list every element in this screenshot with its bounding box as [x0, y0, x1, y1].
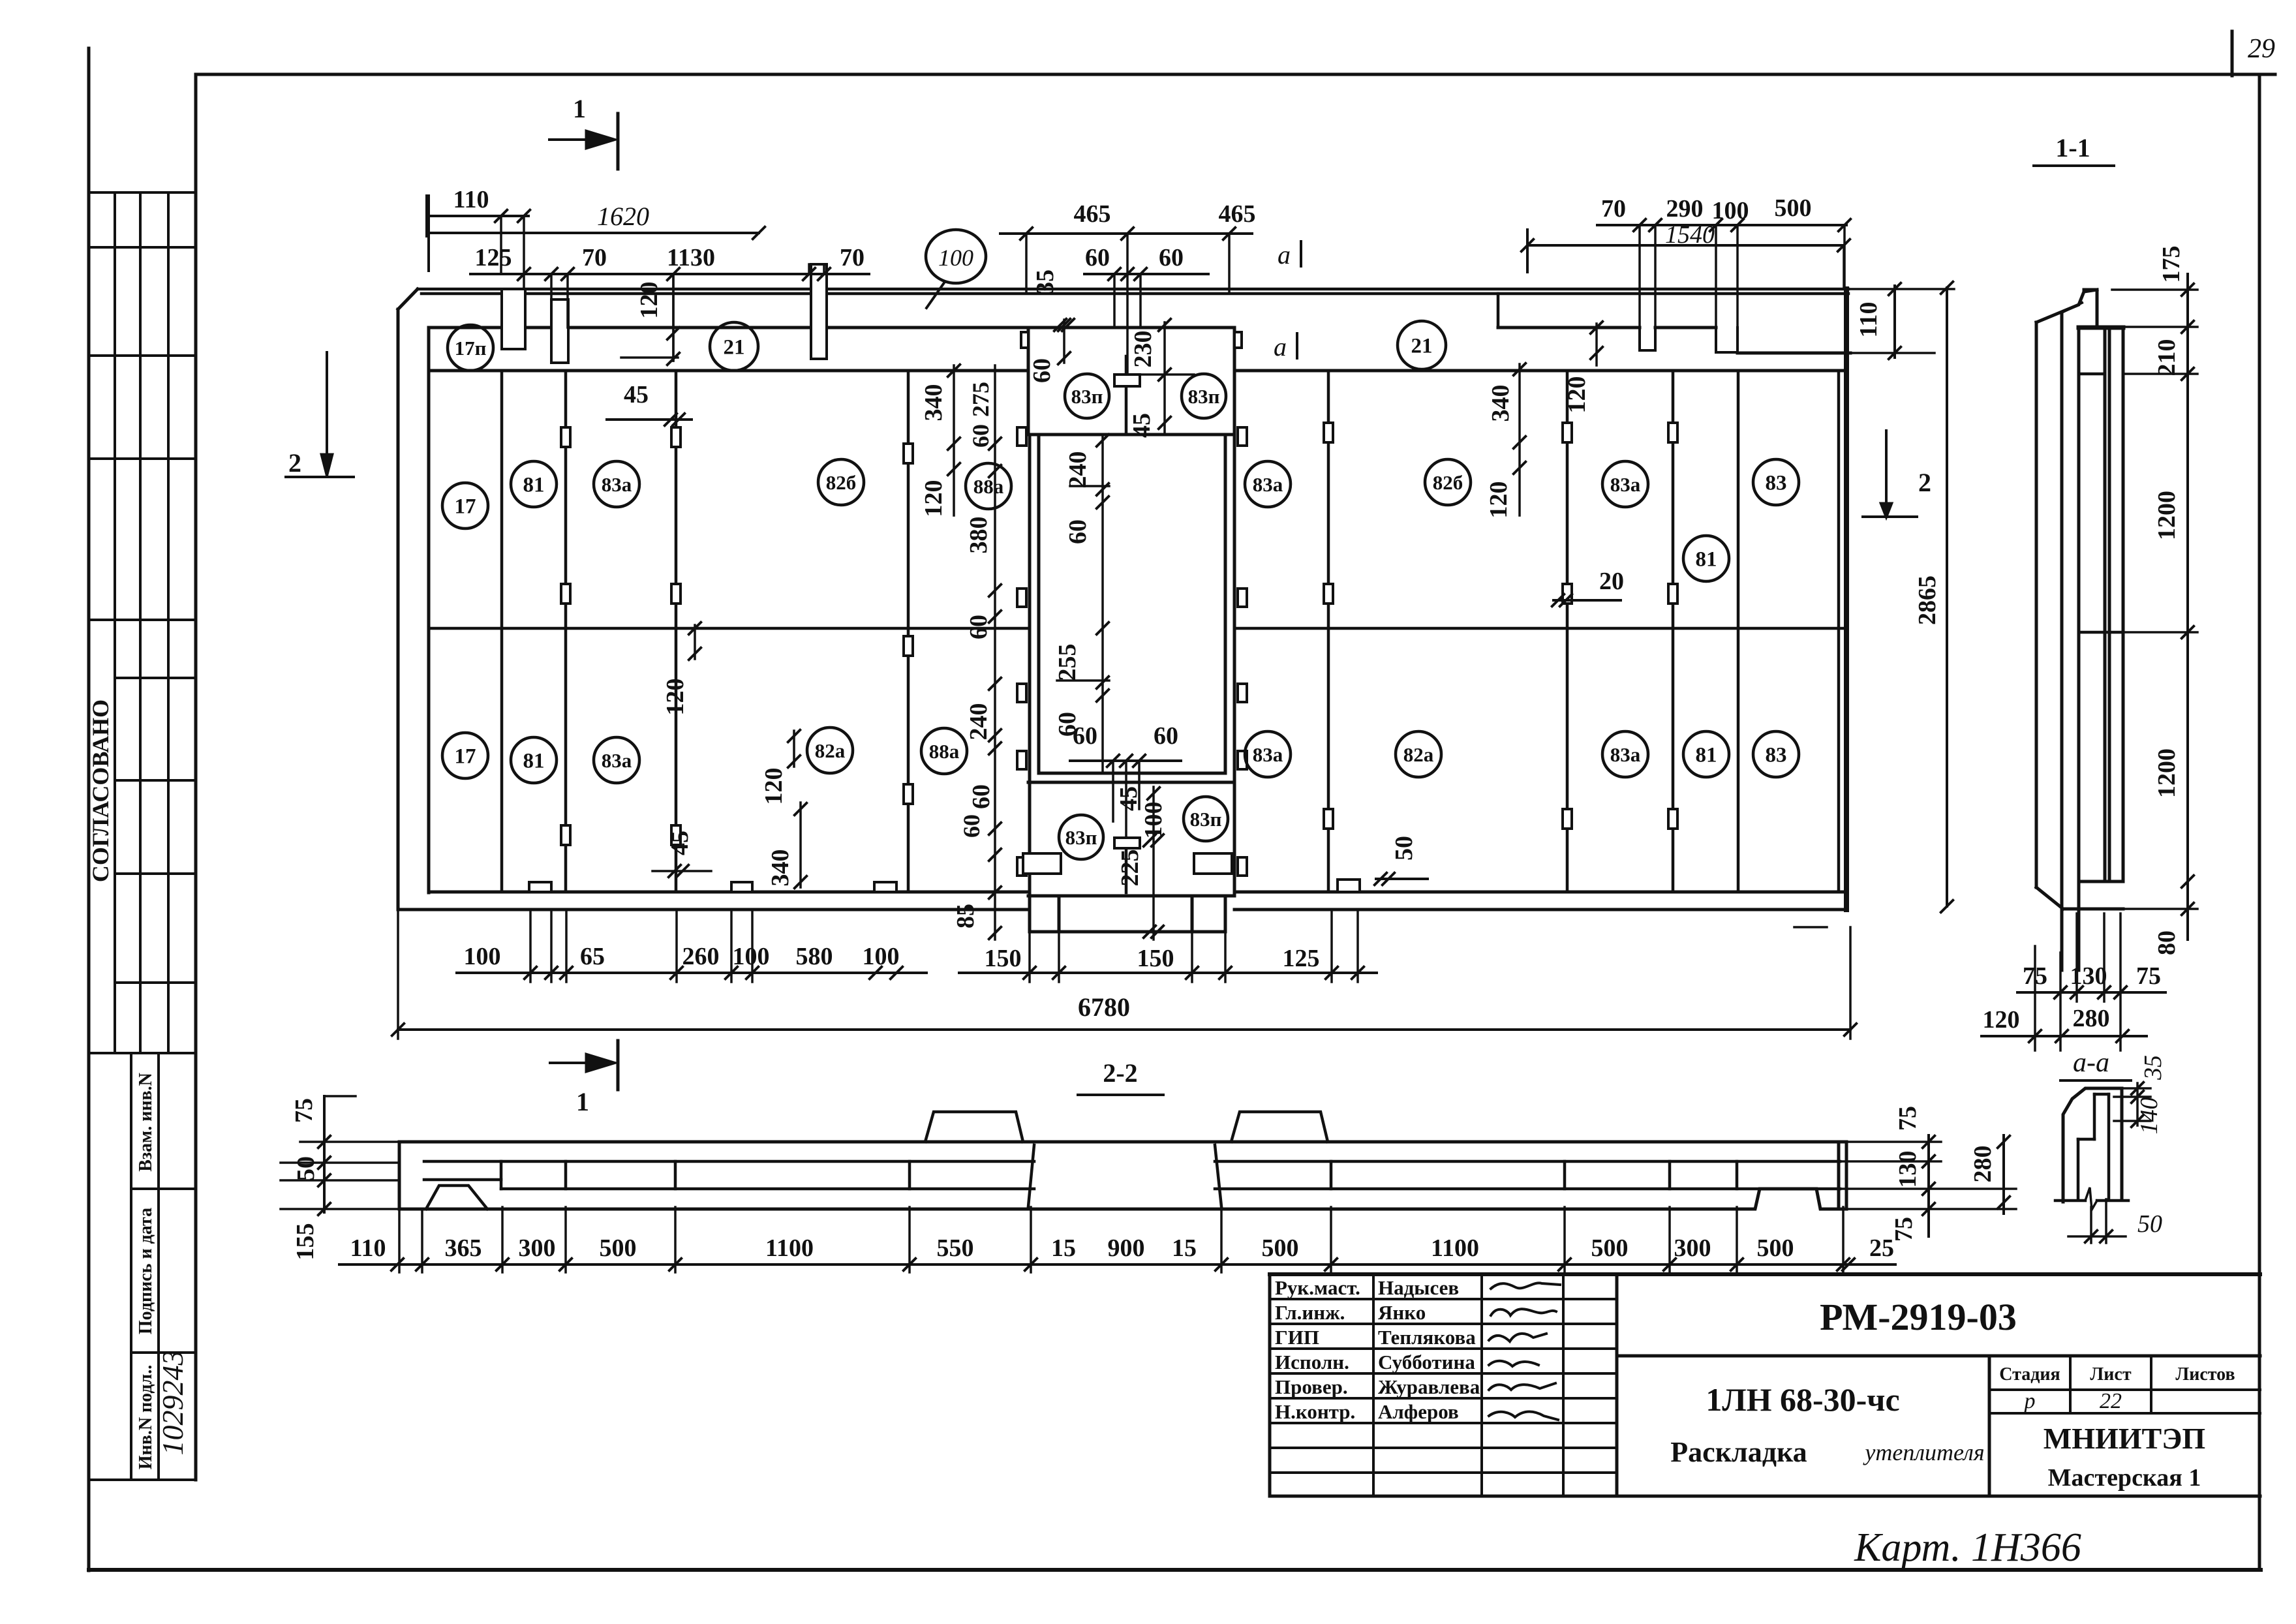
dim 110 right of plan — [1848, 288, 1954, 290]
svg-text:60: 60 — [1159, 244, 1184, 271]
svg-text:2: 2 — [288, 448, 301, 478]
dim 6780 — [397, 910, 399, 1039]
svg-text:21: 21 — [724, 336, 745, 360]
svg-text:17п: 17п — [455, 337, 487, 360]
svg-text:а: а — [1278, 240, 1291, 269]
svg-text:45: 45 — [666, 831, 694, 855]
svg-text:155: 155 — [292, 1223, 319, 1261]
svg-text:45: 45 — [624, 381, 649, 408]
svg-text:500: 500 — [1757, 1234, 1794, 1262]
circle 81 rb — [1683, 731, 1729, 777]
svg-text:83а: 83а — [1610, 473, 1641, 496]
circle 88a top — [966, 463, 1011, 509]
svg-text:65: 65 — [580, 943, 605, 970]
svg-text:60: 60 — [1154, 722, 1178, 750]
svg-text:300: 300 — [519, 1234, 556, 1262]
svg-text:Листов: Листов — [2175, 1364, 2235, 1385]
entrance porch below shaft — [1028, 896, 1032, 932]
svg-text:22: 22 — [2100, 1389, 2122, 1413]
left hat profile — [426, 1186, 487, 1209]
middle divider — [429, 627, 1030, 630]
dim 1620 handwritten — [429, 232, 759, 234]
svg-text:465: 465 — [1219, 200, 1256, 228]
svg-text:50: 50 — [292, 1156, 320, 1181]
svg-text:Алферов: Алферов — [1378, 1400, 1459, 1423]
svg-text:120: 120 — [920, 480, 947, 517]
svg-text:85: 85 — [952, 904, 979, 928]
svg-text:365: 365 — [445, 1234, 482, 1262]
svg-text:82б: 82б — [1433, 471, 1463, 494]
svg-text:1100: 1100 — [1431, 1234, 1479, 1262]
dim 2865 — [1946, 288, 1948, 906]
svg-text:СОГЛАСОВАНО: СОГЛАСОВАНО — [87, 699, 114, 882]
lintel plate top — [1125, 356, 1128, 435]
svg-text:Надысев: Надысев — [1378, 1276, 1459, 1299]
svg-text:81: 81 — [1696, 744, 1717, 767]
svg-text:2865: 2865 — [1914, 575, 1941, 625]
svg-text:580: 580 — [796, 943, 833, 970]
shaft walls — [1028, 435, 1032, 896]
svg-text:150: 150 — [985, 945, 1022, 972]
svg-text:Взам. инв.N: Взам. инв.N — [136, 1073, 156, 1172]
svg-text:340: 340 — [920, 384, 947, 421]
dim 110 top — [427, 215, 528, 217]
svg-text:Гл.инж.: Гл.инж. — [1275, 1301, 1345, 1324]
svg-text:225: 225 — [1116, 850, 1144, 887]
svg-text:Исполн.: Исполн. — [1275, 1351, 1349, 1373]
svg-text:а: а — [1274, 332, 1287, 361]
svg-text:Мастерская 1: Мастерская 1 — [2048, 1464, 2201, 1492]
lintel plate bottom — [1125, 848, 1128, 893]
svg-text:Стадия: Стадия — [1999, 1364, 2060, 1385]
svg-text:2: 2 — [1918, 468, 1931, 497]
svg-text:ГИП: ГИП — [1275, 1326, 1319, 1349]
svg-text:75: 75 — [1890, 1217, 1918, 1242]
svg-text:81: 81 — [523, 474, 545, 497]
room partitions — [500, 371, 504, 892]
svg-text:280: 280 — [2073, 1005, 2110, 1032]
plan outer boundary — [397, 309, 400, 910]
svg-text:Н.контр.: Н.контр. — [1275, 1400, 1355, 1423]
svg-text:125: 125 — [1283, 945, 1320, 972]
svg-text:88а: 88а — [929, 740, 960, 763]
dim 465 465 — [1000, 232, 1252, 235]
svg-text:15: 15 — [1172, 1234, 1197, 1262]
svg-text:1: 1 — [576, 1087, 589, 1116]
svg-text:Теплякова: Теплякова — [1378, 1326, 1476, 1349]
svg-text:р: р — [2023, 1389, 2036, 1413]
svg-text:75: 75 — [2136, 962, 2161, 990]
circle 81 rmid — [1683, 536, 1729, 581]
svg-text:1130: 1130 — [667, 244, 715, 271]
svg-text:130: 130 — [1894, 1151, 1921, 1188]
signatures squiggles — [1491, 1283, 1560, 1289]
svg-text:20: 20 — [1599, 568, 1624, 595]
svg-text:110: 110 — [1855, 302, 1882, 338]
svg-text:1029243: 1029243 — [156, 1351, 189, 1456]
svg-text:83а: 83а — [602, 749, 632, 772]
circle 17 top — [442, 483, 488, 529]
svg-text:50: 50 — [2137, 1210, 2162, 1238]
section 2-2 slab — [399, 1141, 1846, 1144]
section mark 2 right — [1885, 431, 1888, 504]
svg-text:а-а: а-а — [2073, 1048, 2109, 1078]
svg-text:Субботина: Субботина — [1378, 1351, 1475, 1373]
svg-text:120: 120 — [1485, 482, 1512, 519]
svg-text:70: 70 — [582, 244, 607, 271]
circle 83p bottom left — [1059, 815, 1103, 859]
svg-text:83а: 83а — [1253, 473, 1283, 496]
svg-text:17: 17 — [455, 745, 476, 769]
circle 83p bottom right — [1184, 797, 1228, 841]
svg-text:75: 75 — [1894, 1106, 1921, 1131]
section 1-1 panel profile — [2035, 322, 2038, 887]
top channels right — [1638, 328, 1641, 350]
dim 1540 handwritten — [1527, 244, 1844, 247]
svg-text:290: 290 — [1666, 195, 1704, 222]
svg-text:80: 80 — [2153, 930, 2181, 955]
svg-text:РМ-2919-03: РМ-2919-03 — [1820, 1296, 2017, 1338]
dim 60 60 top — [1084, 273, 1208, 275]
svg-text:500: 500 — [1591, 1234, 1629, 1262]
svg-text:2-2: 2-2 — [1103, 1058, 1137, 1088]
a-a dims — [2136, 1083, 2139, 1126]
dim ext lines top-left — [500, 216, 502, 274]
section mark 1 top — [549, 138, 587, 141]
svg-text:100: 100 — [1712, 197, 1749, 224]
dim row 70 290 100 500 — [1597, 224, 1846, 226]
svg-text:Инв.N подл..: Инв.N подл.. — [136, 1365, 156, 1469]
section 1-1 dims — [2112, 288, 2197, 291]
svg-text:100: 100 — [733, 943, 770, 970]
bottom wall inner edge and teeth — [429, 891, 1028, 894]
svg-text:МНИИТЭП: МНИИТЭП — [2043, 1422, 2205, 1455]
section 1-1 right block — [2079, 326, 2123, 330]
slab bottom with porch notch — [399, 1189, 1846, 1209]
svg-text:83: 83 — [1766, 744, 1787, 767]
section 2-2 bottom dim row — [300, 1141, 399, 1143]
dim 280 right — [2002, 1135, 2005, 1214]
svg-text:275: 275 — [968, 382, 994, 417]
svg-text:125: 125 — [475, 244, 512, 271]
svg-text:140: 140 — [2135, 1097, 2163, 1135]
svg-text:21: 21 — [1411, 335, 1433, 358]
svg-text:45: 45 — [1115, 786, 1142, 811]
svg-text:83а: 83а — [602, 473, 632, 496]
svg-text:60: 60 — [958, 814, 985, 838]
slab joints — [500, 1161, 503, 1189]
circle 100 callout — [926, 230, 986, 283]
svg-text:1200: 1200 — [2153, 491, 2181, 540]
svg-text:Журавлева: Журавлева — [1378, 1375, 1480, 1398]
roof teeth crossing top edge — [502, 289, 525, 349]
top wall band — [429, 326, 1234, 329]
dim row 125 70 1130 70 — [470, 273, 869, 275]
doc number PM-2919-03 — [1617, 1355, 2260, 1358]
svg-text:60: 60 — [968, 784, 995, 809]
svg-text:120: 120 — [760, 768, 788, 805]
svg-text:500: 500 — [1775, 194, 1812, 222]
circle 82b rt — [1425, 459, 1471, 505]
trapezoid bump 1 — [925, 1112, 1023, 1142]
svg-text:240: 240 — [1064, 452, 1092, 489]
opening slants — [1028, 1145, 1034, 1206]
svg-text:60: 60 — [1073, 722, 1097, 750]
svg-text:100: 100 — [863, 943, 900, 970]
svg-text:900: 900 — [1108, 1234, 1145, 1262]
svg-text:255: 255 — [1054, 644, 1081, 681]
circle 83 rb — [1753, 731, 1799, 777]
svg-text:340: 340 — [1487, 385, 1514, 422]
circle 21 right — [1398, 321, 1446, 369]
svg-text:15: 15 — [1051, 1234, 1076, 1262]
circle 83p top left — [1065, 374, 1109, 418]
section mark 1 bottom — [550, 1062, 587, 1064]
svg-text:1540: 1540 — [1665, 221, 1715, 249]
circle 82a rb — [1396, 731, 1441, 777]
svg-text:1100: 1100 — [765, 1234, 814, 1262]
svg-text:120: 120 — [1983, 1006, 2020, 1034]
svg-text:500: 500 — [1262, 1234, 1299, 1262]
circle 17 bottom — [442, 733, 488, 778]
shaft lower box — [1028, 895, 1234, 898]
svg-text:45: 45 — [1128, 413, 1156, 438]
svg-text:утеплителя: утеплителя — [1863, 1439, 1984, 1465]
svg-text:35: 35 — [1032, 269, 1059, 294]
svg-text:1ЛН 68-30-чс: 1ЛН 68-30-чс — [1706, 1381, 1899, 1418]
svg-text:83п: 83п — [1071, 385, 1103, 408]
svg-text:81: 81 — [523, 750, 545, 773]
stage table — [1989, 1388, 2260, 1391]
svg-text:120: 120 — [1563, 376, 1591, 414]
svg-text:130: 130 — [2070, 962, 2107, 990]
svg-text:465: 465 — [1074, 200, 1111, 228]
svg-text:230: 230 — [1129, 331, 1157, 368]
bottom ext lines — [529, 910, 532, 982]
break mark — [2055, 1199, 2085, 1203]
svg-text:Рук.маст.: Рук.маст. — [1275, 1276, 1360, 1299]
svg-text:150: 150 — [1137, 945, 1174, 972]
svg-text:83п: 83п — [1065, 826, 1097, 849]
circle 17p — [448, 325, 493, 371]
svg-text:Провер.: Провер. — [1275, 1375, 1348, 1398]
svg-text:82а: 82а — [1403, 743, 1434, 766]
circle 83a rt1 — [1245, 461, 1291, 507]
svg-text:1: 1 — [573, 94, 586, 123]
svg-text:Карт. 1Н366: Карт. 1Н366 — [1854, 1525, 2081, 1570]
svg-text:60: 60 — [1064, 519, 1092, 544]
svg-text:120: 120 — [635, 282, 663, 319]
svg-text:210: 210 — [2153, 339, 2181, 376]
circle 83a rb1 — [1245, 731, 1291, 777]
right wall inner line — [1837, 371, 1841, 892]
svg-text:29: 29 — [2248, 34, 2275, 64]
svg-text:175: 175 — [2158, 246, 2185, 283]
svg-text:Подпись и дата: Подпись и дата — [136, 1208, 156, 1334]
section mark 2 left — [326, 352, 328, 455]
svg-text:83: 83 — [1766, 472, 1787, 495]
svg-text:260: 260 — [682, 943, 720, 970]
svg-text:380: 380 — [965, 517, 992, 554]
svg-text:83п: 83п — [1190, 808, 1222, 831]
section 2-2 right dims 75/130/75 — [1846, 1141, 1941, 1143]
svg-text:6780: 6780 — [1078, 992, 1130, 1022]
svg-text:1620: 1620 — [597, 202, 649, 231]
dims under section 1-1 : 120 280 — [1982, 1035, 2147, 1037]
circle 82b top — [818, 459, 864, 505]
svg-text:60: 60 — [968, 424, 994, 448]
circle 83 rt — [1753, 459, 1799, 505]
svg-text:1-1: 1-1 — [2055, 133, 2090, 162]
svg-text:280: 280 — [1969, 1146, 1997, 1183]
inside shaft dims — [1101, 437, 1104, 772]
svg-text:70: 70 — [840, 244, 865, 271]
dim row bottom — [457, 972, 926, 974]
svg-text:110: 110 — [350, 1234, 386, 1262]
shaft wall teeth — [1017, 427, 1026, 446]
svg-text:83а: 83а — [1610, 743, 1641, 766]
sidebar lower stamp boxes — [130, 1054, 132, 1480]
svg-text:120: 120 — [662, 679, 689, 716]
panel joint marks on partitions — [561, 427, 570, 447]
sheet frame — [87, 48, 91, 1570]
svg-text:70: 70 — [1601, 195, 1626, 222]
svg-text:60: 60 — [1085, 244, 1110, 271]
svg-text:110: 110 — [453, 186, 489, 213]
svg-text:50: 50 — [1390, 836, 1418, 861]
title block — [1270, 1272, 2260, 1276]
circle 83a rb2 — [1602, 731, 1648, 777]
trapezoid bump 2 — [1231, 1112, 1328, 1142]
svg-text:60: 60 — [1028, 358, 1056, 383]
circle 83a bottom — [594, 737, 639, 783]
svg-text:82б: 82б — [826, 471, 857, 494]
svg-text:1200: 1200 — [2153, 748, 2181, 798]
svg-text:100: 100 — [938, 245, 973, 271]
section a-a profile — [2063, 1088, 2122, 1202]
svg-text:35: 35 — [2139, 1055, 2167, 1080]
shaft void — [1039, 772, 1225, 775]
svg-text:83а: 83а — [1253, 743, 1283, 766]
circle 82a bottom — [807, 728, 853, 773]
svg-text:300: 300 — [1674, 1234, 1711, 1262]
svg-text:Лист: Лист — [2090, 1364, 2131, 1385]
svg-text:75: 75 — [290, 1098, 318, 1123]
circle 81 top — [511, 461, 557, 507]
svg-text:550: 550 — [937, 1234, 974, 1262]
shaft upper box — [1027, 328, 1030, 435]
circle 21 left — [710, 322, 758, 371]
circle 88a bottom — [921, 728, 967, 774]
svg-text:81: 81 — [1696, 548, 1717, 572]
svg-text:17: 17 — [455, 495, 476, 519]
page number tick — [2231, 31, 2234, 76]
svg-text:82а: 82а — [815, 739, 846, 762]
dims under section 1-1 : 75 130 75 — [2059, 953, 2062, 1050]
svg-text:Раскладка: Раскладка — [1670, 1436, 1807, 1468]
svg-text:500: 500 — [600, 1234, 637, 1262]
svg-text:75: 75 — [2023, 962, 2047, 990]
object name cell — [1988, 1356, 1991, 1496]
circle 83a rt2 — [1602, 461, 1648, 507]
svg-text:100: 100 — [464, 943, 501, 970]
svg-text:Янко: Янко — [1378, 1301, 1426, 1324]
sidebar approval table — [114, 192, 116, 1053]
circle 83p top right — [1182, 374, 1226, 418]
svg-text:83п: 83п — [1188, 385, 1220, 408]
svg-text:240: 240 — [965, 703, 992, 741]
circle 83a top — [594, 461, 639, 507]
circle 81 bottom — [511, 737, 557, 783]
svg-text:340: 340 — [767, 850, 794, 887]
svg-text:60: 60 — [965, 615, 992, 639]
